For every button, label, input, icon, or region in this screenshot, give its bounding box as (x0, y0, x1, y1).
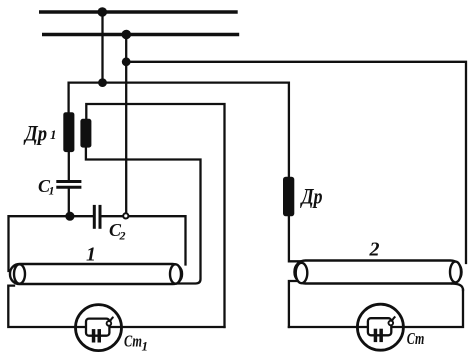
svg-text:1: 1 (50, 127, 57, 142)
svg-text:2: 2 (369, 239, 380, 261)
svg-text:1: 1 (49, 184, 55, 198)
svg-text:Ст: Ст (407, 329, 425, 348)
svg-text:2: 2 (119, 229, 126, 243)
svg-text:1: 1 (86, 244, 96, 266)
svg-text:Др: Др (300, 184, 323, 209)
svg-text:Др: Др (23, 121, 47, 146)
svg-text:Ст: Ст (124, 332, 142, 351)
svg-text:1: 1 (142, 339, 149, 354)
